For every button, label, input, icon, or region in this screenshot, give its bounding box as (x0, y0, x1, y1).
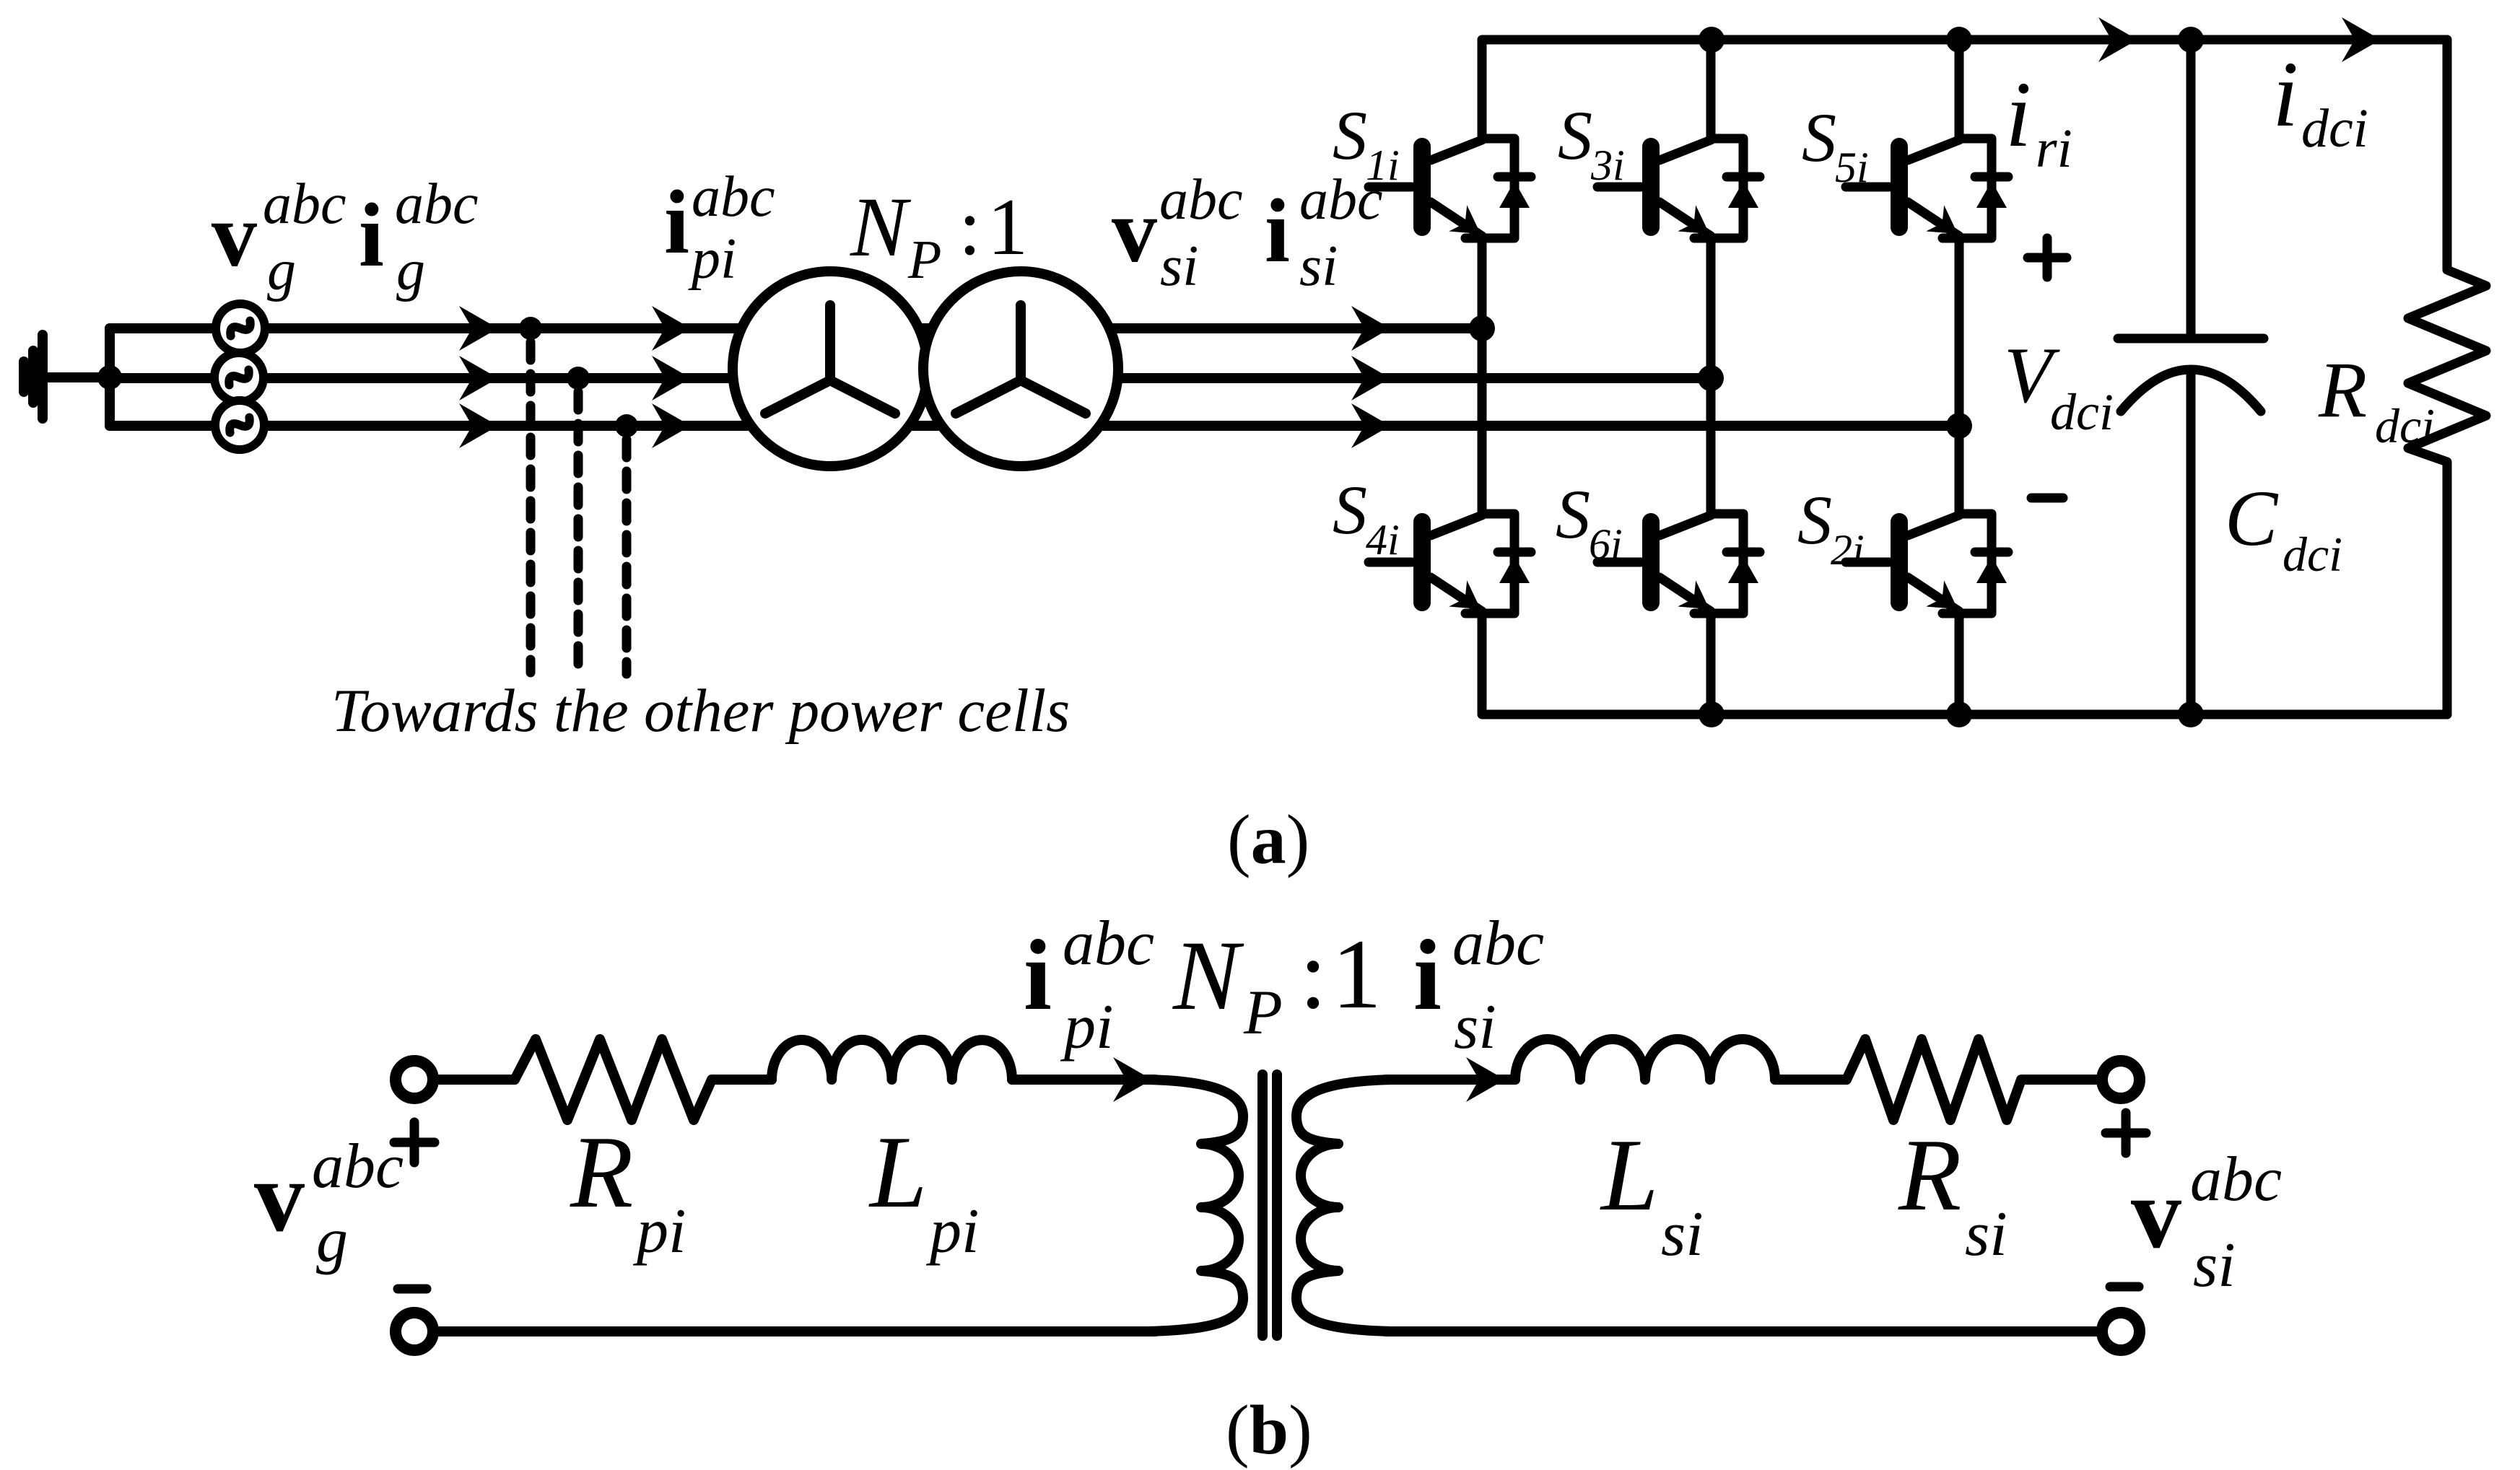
svg-text:abc: abc (1159, 168, 1243, 232)
svg-text:i: i (664, 172, 689, 273)
svg-text:g: g (316, 1206, 348, 1276)
svg-text:P: P (1243, 978, 1283, 1048)
svg-text:abc: abc (395, 172, 479, 236)
svg-text:i: i (2005, 63, 2031, 167)
svg-text:3i: 3i (1590, 141, 1625, 189)
svg-text:Towards the other power cells: Towards the other power cells (331, 677, 1070, 745)
svg-text:N: N (1172, 920, 1244, 1031)
svg-text:abc: abc (692, 165, 775, 229)
svg-text:dci: dci (2301, 98, 2368, 159)
svg-text:R: R (2318, 346, 2367, 434)
svg-text::: : (1299, 919, 1327, 1029)
svg-text:S: S (1797, 481, 1832, 559)
svg-text:S: S (1333, 471, 1367, 548)
svg-text:v: v (212, 185, 257, 286)
svg-text:S: S (1802, 99, 1836, 176)
svg-text:v: v (2131, 1158, 2181, 1269)
svg-text:dci: dci (2283, 527, 2342, 582)
svg-text:g: g (267, 239, 296, 302)
svg-text:N: N (850, 180, 912, 274)
svg-text:2i: 2i (1831, 526, 1865, 574)
svg-text:L: L (868, 1115, 928, 1229)
svg-text:g: g (396, 239, 425, 302)
svg-text:R: R (1898, 1118, 1961, 1232)
svg-text:i: i (1413, 919, 1442, 1031)
svg-text:R: R (570, 1115, 633, 1229)
svg-text:si: si (1454, 992, 1496, 1062)
svg-text:i: i (2272, 43, 2298, 146)
svg-text:(b): (b) (1226, 1391, 1312, 1469)
svg-text:abc: abc (1063, 909, 1154, 979)
svg-text:abc: abc (263, 172, 346, 236)
svg-text:dci: dci (2375, 398, 2435, 453)
svg-text:1: 1 (987, 183, 1028, 272)
svg-text:S: S (1556, 476, 1590, 553)
svg-text:si: si (1299, 235, 1338, 298)
svg-text:(a): (a) (1227, 801, 1309, 879)
svg-text:5i: 5i (1835, 144, 1869, 191)
svg-text:si: si (1965, 1199, 2007, 1269)
svg-text:P: P (907, 229, 941, 290)
svg-text:pi: pi (925, 1196, 979, 1266)
svg-text:S: S (1558, 97, 1592, 174)
svg-text:v: v (1112, 181, 1157, 281)
svg-text:i: i (359, 185, 384, 286)
svg-text:si: si (1160, 235, 1198, 298)
svg-text:C: C (2225, 474, 2279, 562)
svg-text:abc: abc (2190, 1145, 2282, 1215)
svg-text:pi: pi (1060, 992, 1113, 1062)
svg-text::: : (959, 183, 981, 272)
svg-text:abc: abc (1452, 909, 1544, 979)
svg-text:pi: pi (688, 227, 736, 291)
svg-text:i: i (1265, 181, 1290, 281)
svg-text:L: L (1600, 1118, 1659, 1232)
svg-text:pi: pi (632, 1196, 686, 1266)
svg-text:1i: 1i (1366, 141, 1400, 189)
svg-text:si: si (1661, 1199, 1704, 1269)
svg-text:abc: abc (312, 1132, 404, 1202)
svg-text:S: S (1333, 97, 1367, 174)
svg-text:v: v (254, 1141, 305, 1253)
svg-text:si: si (2193, 1230, 2236, 1300)
svg-text:6i: 6i (1589, 520, 1623, 568)
svg-text:4i: 4i (1366, 516, 1400, 564)
svg-text:ri: ri (2036, 118, 2072, 179)
svg-text:i: i (1024, 919, 1052, 1031)
svg-text:1: 1 (1332, 919, 1382, 1029)
svg-text:dci: dci (2050, 383, 2114, 441)
